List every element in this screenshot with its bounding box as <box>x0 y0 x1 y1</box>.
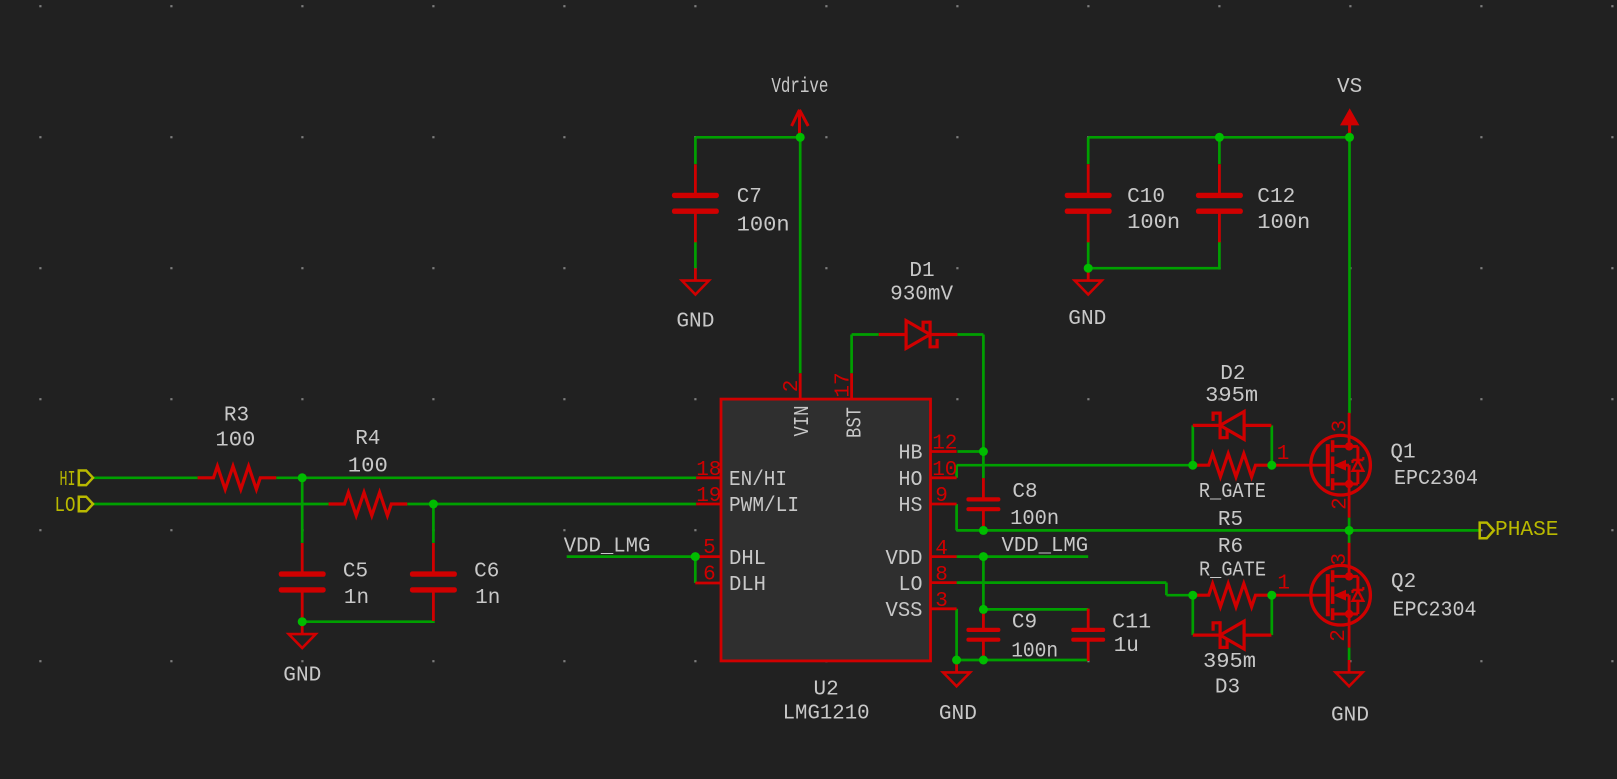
svg-text:R6: R6 <box>1218 536 1243 559</box>
svg-text:C8: C8 <box>1012 481 1037 504</box>
capacitor C7 <box>672 164 719 242</box>
junction R4 output <box>429 500 438 509</box>
wire HI net: R3 to pin EN/HI <box>276 476 696 479</box>
junction C12 top <box>1215 133 1224 142</box>
ground (C7) <box>682 268 709 294</box>
diode D2 (schottky, gate) <box>1193 412 1272 440</box>
svg-text:3: 3 <box>935 590 948 613</box>
resistor R4 <box>329 492 408 515</box>
wire BST to D1 anode <box>852 333 879 336</box>
wire LO net: R4 to pin PWM/LI <box>407 503 696 506</box>
svg-text:1n: 1n <box>344 587 369 610</box>
svg-text:3: 3 <box>1330 420 1353 433</box>
pin 8 LO stub <box>931 581 957 584</box>
wire HB pin to junction <box>957 450 983 453</box>
wire VDD_LMG right <box>983 555 1088 558</box>
svg-text:VSS: VSS <box>886 600 923 623</box>
wire DHL-DLH vertical <box>694 557 697 583</box>
svg-text:VIN: VIN <box>792 406 815 437</box>
svg-text:2: 2 <box>1328 629 1351 642</box>
pin 6 DLH stub <box>695 582 721 585</box>
svg-text:VDD_LMG: VDD_LMG <box>1002 535 1089 558</box>
pin 17 BST stub <box>850 373 853 399</box>
junction Q2 gate <box>1267 591 1276 600</box>
svg-text:R_GATE: R_GATE <box>1199 481 1266 504</box>
svg-text:100n: 100n <box>737 215 790 238</box>
wire HO to gate network <box>957 464 1193 467</box>
svg-text:C7: C7 <box>737 186 762 209</box>
svg-text:GND: GND <box>676 310 714 333</box>
resistor R3 <box>198 466 277 489</box>
svg-text:4: 4 <box>935 538 948 561</box>
capacitor C8 <box>966 478 1000 530</box>
capacitor C6 <box>410 543 457 621</box>
svg-text:C11: C11 <box>1112 612 1151 635</box>
svg-text:1n: 1n <box>475 587 500 610</box>
pin 18 EN/HI stub <box>696 476 721 479</box>
pin 9 HS stub <box>931 503 957 506</box>
svg-text:D1: D1 <box>909 260 934 283</box>
wire Vdrive to VIN vertical <box>799 137 802 373</box>
capacitor C10 <box>1065 164 1112 242</box>
pin 5 DHL stub <box>695 555 721 558</box>
wire VSS jog down <box>955 609 958 660</box>
pin 2 VIN stub <box>799 373 802 399</box>
svg-text:8: 8 <box>935 564 948 587</box>
svg-text:GND: GND <box>1331 705 1369 728</box>
pin 10 HO stub <box>931 476 957 479</box>
wire C10 top lead <box>1087 137 1090 164</box>
junction VSS rail <box>952 656 961 665</box>
svg-text:R5: R5 <box>1218 509 1243 532</box>
wire D1 cathode horizontal <box>957 333 983 336</box>
svg-text:LMG1210: LMG1210 <box>783 703 870 726</box>
junction D3/R6 left <box>1188 591 1197 600</box>
svg-text:BST: BST <box>844 407 867 438</box>
wire BST vertical <box>850 335 853 374</box>
svg-text:2: 2 <box>1330 497 1353 510</box>
svg-text:9: 9 <box>935 485 948 508</box>
wire C10-C12 ground rail <box>1088 242 1219 269</box>
svg-text:19: 19 <box>696 485 721 508</box>
svg-text:HS: HS <box>899 495 923 518</box>
junction PHASE / Q1-Q2 <box>1345 526 1354 535</box>
junction C10 gnd rail <box>1084 264 1093 273</box>
wire C7 top lead <box>694 137 697 164</box>
svg-text:LO: LO <box>55 495 76 518</box>
svg-text:EPC2304: EPC2304 <box>1393 600 1477 623</box>
resistor R6 <box>1193 584 1272 607</box>
svg-text:U2: U2 <box>813 679 838 702</box>
pin 3 VSS stub <box>931 607 957 610</box>
svg-text:R3: R3 <box>224 405 249 428</box>
svg-text:VS: VS <box>1337 76 1362 99</box>
svg-text:R4: R4 <box>355 428 380 451</box>
wire VDD_LMG left to DHL <box>567 555 696 558</box>
junction C9 top <box>979 605 988 614</box>
svg-text:395m: 395m <box>1203 651 1256 674</box>
power symbol VS (filled arrow) <box>1340 108 1359 137</box>
svg-text:1u: 1u <box>1114 635 1139 658</box>
svg-text:R_GATE: R_GATE <box>1199 559 1266 582</box>
wire D2 right vertical <box>1270 425 1273 465</box>
svg-text:D2: D2 <box>1220 363 1245 386</box>
wire D1 to HB vertical <box>982 335 985 479</box>
svg-text:930mV: 930mV <box>890 284 953 307</box>
svg-text:100n: 100n <box>1257 212 1310 235</box>
wire VDD to C9 vertical <box>982 557 985 610</box>
wire C12 top lead <box>1218 137 1221 164</box>
svg-text:GND: GND <box>939 703 977 726</box>
wire PHASE to Q2 drain <box>1348 530 1351 543</box>
node PHASE hierarchical label <box>1480 523 1494 539</box>
svg-text:1: 1 <box>1277 572 1290 595</box>
wire HI net: label to R3 <box>93 476 198 479</box>
wire HS to C8 junction <box>957 529 984 532</box>
svg-text:C9: C9 <box>1012 612 1037 635</box>
svg-text:12: 12 <box>932 433 957 456</box>
wire LO pin to jog <box>957 581 1167 584</box>
wire LO jog down <box>1165 583 1168 596</box>
pin 4 VDD stub <box>931 555 957 558</box>
svg-text:DHL: DHL <box>729 548 766 571</box>
svg-text:17: 17 <box>833 372 856 397</box>
junction Q1 gate <box>1267 461 1276 470</box>
op-amp U2 body (LMG1210 gate driver) <box>721 399 931 661</box>
svg-text:100n: 100n <box>1010 508 1059 531</box>
svg-text:C6: C6 <box>474 560 499 583</box>
svg-text:10: 10 <box>932 459 957 482</box>
capacitor C5 <box>279 543 326 621</box>
svg-text:100: 100 <box>348 456 388 479</box>
svg-text:3: 3 <box>1329 553 1352 566</box>
ground (C10/C12) <box>1075 268 1102 294</box>
junction HB <box>979 447 988 456</box>
wire node R3-C5 vertical <box>301 478 304 543</box>
svg-text:VDD_LMG: VDD_LMG <box>564 536 651 559</box>
transistor Q2 (EPC2304 GaN FET) <box>1272 543 1371 648</box>
power symbol Vdrive (arrow) <box>792 110 809 138</box>
svg-text:Q2: Q2 <box>1391 571 1416 594</box>
svg-text:PWM/LI: PWM/LI <box>729 495 799 518</box>
svg-text:5: 5 <box>703 537 716 560</box>
transistor Q1 (EPC2304 GaN FET) <box>1272 413 1371 518</box>
svg-text:HO: HO <box>899 469 923 492</box>
wire C7 bottom to GND <box>694 242 697 269</box>
junction R3 output <box>298 473 307 482</box>
pin 12 HB stub <box>931 450 957 453</box>
svg-text:GND: GND <box>283 665 321 688</box>
ground (C5/C6) <box>289 622 316 648</box>
svg-text:VDD: VDD <box>886 548 923 571</box>
svg-text:100n: 100n <box>1011 640 1058 663</box>
node LO hierarchical label <box>79 497 93 512</box>
wire D3 left vertical <box>1191 595 1194 635</box>
svg-text:D3: D3 <box>1215 676 1240 699</box>
wire LO jog to gate network <box>1166 594 1192 597</box>
capacitor C9 <box>966 609 1000 661</box>
pin 19 PWM/LI stub <box>696 503 721 506</box>
svg-text:100: 100 <box>215 430 255 453</box>
wire VS to Q1 drain vertical <box>1348 137 1351 413</box>
wire C5-C6 ground rail <box>302 620 433 623</box>
junction C9 bottom <box>979 656 988 665</box>
svg-text:Vdrive: Vdrive <box>771 76 828 99</box>
capacitor C11 <box>1071 609 1105 661</box>
junction Vdrive <box>796 133 805 142</box>
svg-text:DLH: DLH <box>729 574 766 597</box>
wire PHASE net horizontal <box>983 529 1479 532</box>
wire Vdrive horizontal to C7 <box>695 136 800 139</box>
svg-text:HI: HI <box>60 469 76 492</box>
svg-text:PHASE: PHASE <box>1495 519 1559 542</box>
svg-text:C12: C12 <box>1257 186 1295 209</box>
svg-text:Q1: Q1 <box>1390 442 1415 465</box>
wire LO net: label to R4 <box>93 503 329 506</box>
junction C8 bottom / HS <box>979 526 988 535</box>
wire node R4-C6 vertical <box>432 504 435 543</box>
wire D2 left vertical <box>1191 425 1194 465</box>
wire HS jog down <box>955 504 958 530</box>
junction D2/R5 left <box>1188 461 1197 470</box>
wire D3 right vertical <box>1270 595 1273 635</box>
diode D1 (schottky, bootstrap) <box>879 321 958 349</box>
diode D3 (schottky, gate) <box>1193 621 1272 649</box>
junction VS <box>1345 133 1354 142</box>
wire VDD pin to junction <box>957 555 984 558</box>
svg-text:C10: C10 <box>1127 186 1165 209</box>
wire C9-C11 top rail <box>983 607 1088 610</box>
svg-text:18: 18 <box>696 459 721 482</box>
junction C5 gnd <box>298 617 307 626</box>
svg-text:GND: GND <box>1068 308 1106 331</box>
svg-text:C5: C5 <box>343 560 368 583</box>
svg-text:EN/HI: EN/HI <box>729 469 787 492</box>
svg-text:395m: 395m <box>1205 385 1258 408</box>
wire VSS ground rail <box>957 659 1089 662</box>
ground (Q2 source) <box>1336 660 1363 686</box>
svg-text:EPC2304: EPC2304 <box>1394 468 1478 491</box>
ground (VSS) <box>943 660 970 686</box>
capacitor C12 <box>1196 164 1243 242</box>
wire C10 bottom to GND rail <box>1087 242 1090 269</box>
svg-text:HB: HB <box>899 443 923 466</box>
wire VS rail horizontal <box>1088 136 1349 139</box>
svg-text:2: 2 <box>781 380 804 393</box>
svg-text:6: 6 <box>703 563 716 586</box>
svg-text:1: 1 <box>1277 443 1290 466</box>
wire HO jog up <box>955 465 958 478</box>
node HI hierarchical label <box>79 471 93 486</box>
resistor R5 <box>1193 454 1272 477</box>
junction DHL <box>691 552 700 561</box>
wire Q2 source to GND <box>1348 648 1351 660</box>
svg-text:100n: 100n <box>1127 212 1180 235</box>
wire Q1 source to PHASE <box>1348 518 1351 531</box>
junction VDD <box>979 552 988 561</box>
svg-text:LO: LO <box>899 574 923 597</box>
